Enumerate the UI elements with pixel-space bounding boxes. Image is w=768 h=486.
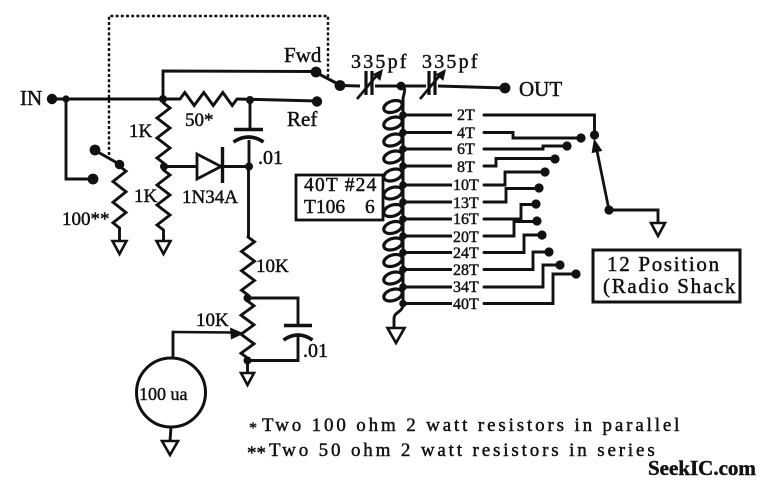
switch contact 28T xyxy=(544,247,553,256)
svg-text:10T: 10T xyxy=(453,177,479,194)
diode D1 cathode bar xyxy=(221,147,224,183)
wire xyxy=(403,148,452,151)
svg-text:(Radio Shack: (Radio Shack xyxy=(603,274,737,298)
node B diode junction xyxy=(160,163,168,171)
node tap 10T xyxy=(399,181,407,189)
wire xyxy=(484,146,563,149)
wire xyxy=(403,286,452,289)
wire xyxy=(403,302,452,305)
wire xyxy=(403,235,452,238)
svg-text:Two 50 ohm 2 watt resistors in: Two 50 ohm 2 watt resistors in series xyxy=(269,440,658,461)
svg-text:1K: 1K xyxy=(129,121,153,142)
svg-text:1K: 1K xyxy=(134,186,158,207)
ground xyxy=(651,223,665,236)
switch contact 10T xyxy=(540,167,549,176)
svg-text:SeekIC.com: SeekIC.com xyxy=(648,456,756,480)
wire xyxy=(52,98,163,101)
wire xyxy=(403,218,452,221)
switch contact 20T xyxy=(532,216,541,225)
resistor R3 50 ohm xyxy=(180,93,237,106)
switch contact 4T xyxy=(576,133,585,142)
wire xyxy=(403,114,452,117)
svg-text:12 Position: 12 Position xyxy=(607,252,721,276)
svg-text:4T: 4T xyxy=(457,125,475,142)
wire xyxy=(484,252,545,270)
node input junction xyxy=(62,95,69,102)
wire xyxy=(403,131,452,134)
wire xyxy=(403,165,452,168)
switch contact 24T xyxy=(537,230,546,239)
wire xyxy=(403,184,452,187)
switch contact 8T xyxy=(550,154,559,163)
rotary switch wiper arrowhead xyxy=(592,139,603,154)
wire xyxy=(340,84,360,88)
node tap 20T xyxy=(399,232,407,240)
wire xyxy=(246,295,249,301)
rotary switch box xyxy=(593,250,740,302)
wire xyxy=(484,222,533,237)
svg-text:50*: 50* xyxy=(185,110,214,131)
wire xyxy=(484,235,538,253)
wire xyxy=(170,427,171,441)
ground xyxy=(241,373,254,385)
switch contact 13T xyxy=(534,183,543,192)
rotary switch wiper xyxy=(597,151,609,210)
switch S1a contact lower xyxy=(88,174,99,185)
wire xyxy=(163,98,180,101)
svg-text:Two 100 ohm 2 watt resistors i: Two 100 ohm 2 watt resistors in parallel xyxy=(262,415,682,436)
node switch-resistor junction xyxy=(115,160,125,170)
diode D1 1N34A xyxy=(197,154,221,179)
svg-text:Ref: Ref xyxy=(287,107,317,131)
node C xyxy=(246,96,254,104)
variable capacitor C2 335pf xyxy=(357,69,383,99)
wire xyxy=(164,165,196,168)
resistor R4 10K xyxy=(242,237,255,295)
switch S1b common xyxy=(335,80,346,91)
switch S1a blade xyxy=(97,152,119,165)
capacitor C1 .01 curved plate xyxy=(234,137,264,142)
node tap 13T xyxy=(399,198,407,206)
node tap 24T xyxy=(399,249,407,257)
wire xyxy=(248,338,299,361)
svg-text:335pf: 335pf xyxy=(422,51,480,73)
svg-text:40T: 40T xyxy=(453,296,479,313)
svg-text:T106: T106 xyxy=(304,197,345,218)
wire xyxy=(246,358,249,373)
wire xyxy=(484,172,541,185)
meter M1 100ua xyxy=(137,358,206,427)
wire xyxy=(609,210,658,223)
potentiometer wiper arrowhead xyxy=(230,328,244,340)
switch S1b contact Fwd xyxy=(311,67,322,78)
wire xyxy=(484,205,532,220)
node E coil top xyxy=(397,82,406,91)
ground xyxy=(388,328,405,343)
rotary switch pivot xyxy=(604,205,613,214)
switch contact 6T xyxy=(562,141,571,150)
svg-text:100**: 100** xyxy=(62,209,110,230)
wire xyxy=(484,265,556,287)
svg-text:Fwd: Fwd xyxy=(284,43,322,67)
node tap 40T xyxy=(399,300,407,308)
wire xyxy=(247,167,250,238)
wire xyxy=(223,165,249,168)
wire xyxy=(162,230,165,241)
node tap 6T xyxy=(399,145,407,153)
svg-text:24T: 24T xyxy=(453,245,479,262)
wire xyxy=(403,201,452,204)
svg-text:.01: .01 xyxy=(303,340,328,362)
wire xyxy=(484,133,577,139)
svg-text:10K: 10K xyxy=(196,310,229,331)
ground xyxy=(157,241,171,254)
terminal IN xyxy=(47,94,57,104)
svg-text:6: 6 xyxy=(365,197,375,218)
svg-text:20T: 20T xyxy=(453,229,479,246)
svg-text:335pf: 335pf xyxy=(351,51,409,73)
svg-text:28T: 28T xyxy=(453,262,479,279)
node D xyxy=(245,163,253,171)
node tap 4T xyxy=(399,129,407,137)
wire xyxy=(403,268,452,271)
resistor R 100 ohm xyxy=(113,166,126,228)
switch S1a contact upper xyxy=(90,145,101,156)
ground xyxy=(162,441,178,455)
wire xyxy=(248,140,251,167)
svg-text:*: * xyxy=(249,420,257,437)
potentiometer R5 10K xyxy=(241,301,254,358)
mechanical link dashed xyxy=(109,16,328,155)
svg-text:40T #24: 40T #24 xyxy=(304,175,378,196)
wire xyxy=(484,189,535,203)
wire xyxy=(237,99,317,101)
wire xyxy=(394,304,403,327)
switch contact 16T xyxy=(531,199,540,208)
wire xyxy=(484,274,572,304)
wire xyxy=(375,85,426,88)
wire xyxy=(484,115,595,131)
svg-text:OUT: OUT xyxy=(519,77,562,101)
svg-text:IN: IN xyxy=(20,86,42,110)
node G pot bottom xyxy=(244,357,252,365)
svg-text:1N34A: 1N34A xyxy=(182,187,238,208)
variable capacitor C3 335pf xyxy=(420,69,446,99)
wire xyxy=(484,159,551,167)
wire xyxy=(163,71,316,99)
node F xyxy=(244,294,252,302)
node tap 8T xyxy=(399,162,407,170)
wire xyxy=(66,99,90,179)
coil spec box xyxy=(296,175,383,220)
node tap 16T xyxy=(399,215,407,223)
svg-text:6T: 6T xyxy=(457,141,475,158)
capacitor C4 .01 curved plate xyxy=(284,335,313,340)
node tap 2T xyxy=(399,111,407,119)
svg-text:2T: 2T xyxy=(457,107,475,124)
inductor L1 40T coil xyxy=(382,98,403,304)
svg-text:.01: .01 xyxy=(258,147,283,169)
resistor R1 1K upper xyxy=(157,103,170,163)
wire xyxy=(172,332,175,359)
svg-text:34T: 34T xyxy=(453,279,479,296)
svg-text:8T: 8T xyxy=(457,159,475,176)
svg-text:10K: 10K xyxy=(256,256,289,277)
wire xyxy=(401,86,405,99)
ground xyxy=(113,241,127,254)
capacitor C1 .01 plate xyxy=(234,128,263,132)
resistor R2 1K lower xyxy=(157,170,170,230)
switch S1b blade xyxy=(318,74,339,85)
switch contact 40T xyxy=(571,269,580,278)
capacitor C4 .01 plate xyxy=(284,324,312,328)
svg-text:16T: 16T xyxy=(453,211,479,228)
wire xyxy=(248,298,299,324)
svg-text:100 ua: 100 ua xyxy=(139,384,188,404)
potentiometer wiper xyxy=(173,331,234,334)
svg-text:**: ** xyxy=(247,443,266,464)
terminal OUT xyxy=(500,83,511,94)
wire xyxy=(249,100,252,128)
node tap 34T xyxy=(399,283,407,291)
wire xyxy=(403,251,452,254)
switch contact 34T xyxy=(555,260,564,269)
wire xyxy=(118,228,121,241)
node tap 28T xyxy=(399,266,407,274)
svg-text:13T: 13T xyxy=(453,195,479,212)
node A xyxy=(159,95,167,103)
terminal Ref xyxy=(312,96,322,106)
wire xyxy=(438,86,505,88)
switch contact 2T xyxy=(590,130,599,139)
